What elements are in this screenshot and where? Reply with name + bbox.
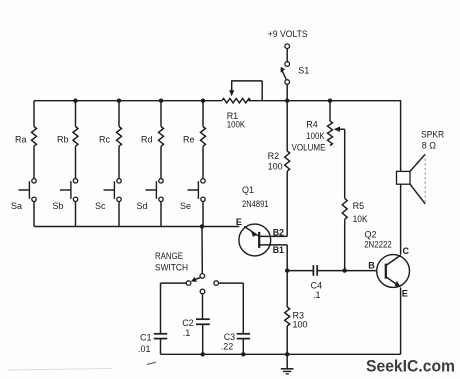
wire top rail right	[249, 100, 401, 102]
wire C4 to base	[317, 270, 376, 272]
svg-text:R5: R5	[353, 201, 365, 211]
svg-text:100K: 100K	[227, 119, 245, 129]
svg-text:RANGE: RANGE	[155, 251, 183, 261]
wire Rc to switch	[118, 146, 120, 178]
wire to C4	[287, 270, 313, 272]
node R4 rail junction	[328, 99, 332, 103]
wire R3 to ground bus	[286, 326, 288, 354]
svg-text:SPKR: SPKR	[421, 129, 444, 139]
svg-text:2N4891: 2N4891	[242, 199, 269, 209]
wire R2 to B2	[286, 171, 288, 236]
svg-text:E: E	[236, 217, 242, 227]
svg-text:10K: 10K	[353, 214, 368, 224]
svg-text:.01: .01	[138, 344, 151, 354]
wire Q1 B2	[259, 235, 287, 237]
svg-text:Sb: Sb	[53, 201, 64, 211]
node S1 rail junction	[285, 99, 289, 103]
svg-text:.1: .1	[313, 290, 321, 300]
wire R5 to C4 node	[344, 219, 346, 270]
wire range sw to C3	[219, 282, 244, 284]
switch RANGE	[200, 274, 205, 279]
wire C2 to bus	[202, 325, 204, 355]
node R3 bus junction	[285, 352, 289, 356]
wire R4 wiper	[334, 127, 340, 132]
wire Sd to bus	[160, 202, 162, 227]
svg-text:Q2: Q2	[365, 229, 377, 239]
svg-text:S1: S1	[298, 66, 309, 76]
svg-text:.1: .1	[183, 328, 191, 338]
wire Sc to bus	[118, 202, 120, 227]
transistor Q1	[239, 224, 271, 256]
svg-text:C1: C1	[140, 332, 152, 342]
svg-text:8 Ω: 8 Ω	[422, 140, 437, 150]
svg-text:R4: R4	[306, 120, 318, 130]
wire Rc top	[118, 101, 120, 127]
node C2 bus junction	[201, 352, 205, 356]
svg-text:.22: .22	[221, 341, 234, 351]
wire S1 top	[286, 49, 288, 62]
switch S1	[285, 62, 290, 67]
svg-text:C2: C2	[182, 318, 194, 328]
svg-text:SeekIC.com: SeekIC.com	[366, 356, 455, 375]
wire C3 to bus	[242, 339, 244, 354]
wire range sw to C2	[202, 294, 204, 319]
resistor R5	[342, 198, 347, 219]
node R5-base junction	[343, 268, 347, 272]
wire top rail left	[34, 100, 222, 102]
svg-text:Rc: Rc	[99, 135, 110, 145]
wire Ra top	[33, 101, 35, 127]
potentiometer R4	[328, 121, 333, 146]
svg-text:Rb: Rb	[57, 135, 69, 145]
node Rc rail junction	[117, 99, 121, 103]
wire switch bus / Q1 emitter	[34, 226, 239, 228]
wire Rb top	[75, 101, 77, 127]
wire rail to R4	[329, 101, 331, 121]
wire Sa to bus	[33, 202, 35, 227]
svg-text:E: E	[402, 289, 408, 299]
resistor R2	[285, 151, 290, 171]
svg-text:100K: 100K	[306, 131, 324, 141]
wire to range switch	[201, 227, 203, 274]
resistor Ra	[32, 127, 37, 147]
node Rd rail junction	[159, 99, 163, 103]
resistor R3	[285, 307, 290, 326]
switch Sa	[32, 179, 36, 183]
svg-text:Sc: Sc	[95, 201, 106, 211]
ground	[286, 354, 288, 369]
wire Ra to switch	[33, 146, 35, 178]
wire Rb to switch	[75, 146, 77, 178]
svg-text:2N2222: 2N2222	[364, 240, 392, 250]
svg-text:100: 100	[268, 162, 283, 172]
svg-text:Re: Re	[183, 135, 195, 145]
speaker SPKR	[397, 171, 411, 184]
wire R1 wiper	[231, 81, 233, 91]
wire rail to R2	[286, 101, 288, 151]
wire Q2 collector	[400, 184, 402, 254]
switch Sc	[117, 179, 121, 183]
wire stray mark	[147, 362, 156, 364]
svg-text:C: C	[403, 246, 410, 256]
svg-text:Rd: Rd	[141, 135, 153, 145]
svg-text:B1: B1	[273, 245, 284, 255]
wire top-right corner	[400, 100, 402, 171]
svg-text:Q1: Q1	[242, 185, 254, 195]
resistor Rb	[73, 127, 78, 147]
wire ground bus	[161, 353, 401, 355]
wire C1 to bus	[160, 339, 162, 354]
svg-text:Se: Se	[180, 201, 191, 211]
node range-switch junction	[200, 224, 204, 228]
switch Se	[201, 179, 205, 183]
node +9V terminal	[285, 44, 290, 49]
wire Sb to bus	[75, 202, 77, 227]
wire range sw to C1	[161, 282, 187, 284]
svg-text:Ra: Ra	[15, 135, 27, 145]
switch Sd	[159, 179, 163, 183]
resistor Rd	[159, 127, 164, 147]
svg-text:Sa: Sa	[11, 201, 22, 211]
resistor R1	[222, 99, 251, 103]
capacitor C4	[312, 265, 314, 276]
node Re rail junction	[201, 99, 205, 103]
resistor Rc	[117, 127, 122, 147]
svg-text:B: B	[368, 261, 375, 271]
svg-text:SWITCH: SWITCH	[155, 262, 188, 272]
svg-text:VOLUME: VOLUME	[292, 142, 326, 152]
wire Re to switch	[202, 146, 204, 178]
resistor Re	[201, 127, 206, 147]
svg-text:100: 100	[293, 320, 308, 330]
transistor Q2	[377, 255, 410, 288]
capacitor C1	[154, 333, 167, 335]
svg-text:Sd: Sd	[137, 201, 148, 211]
switch Sb	[73, 179, 77, 183]
wire Q2 emitter	[400, 288, 402, 355]
node B1-C4 junction	[285, 268, 289, 272]
svg-text:C4: C4	[311, 280, 323, 290]
capacitor C2	[196, 318, 210, 320]
wire Rd to switch	[160, 146, 162, 178]
wire C4 node to R3	[286, 271, 288, 307]
svg-text:C3: C3	[224, 332, 236, 342]
capacitor C3	[237, 333, 250, 335]
wire Q1 B1	[259, 244, 287, 246]
wire S1 to rail	[286, 84, 288, 100]
wire Rd top	[160, 101, 162, 127]
svg-text:+9 VOLTS: +9 VOLTS	[268, 29, 308, 39]
svg-text:R2: R2	[268, 151, 280, 161]
node C3 bus junction	[241, 352, 245, 356]
wire Se to bus	[202, 202, 204, 227]
wire Re top	[202, 101, 204, 127]
node Rb rail junction	[73, 99, 77, 103]
